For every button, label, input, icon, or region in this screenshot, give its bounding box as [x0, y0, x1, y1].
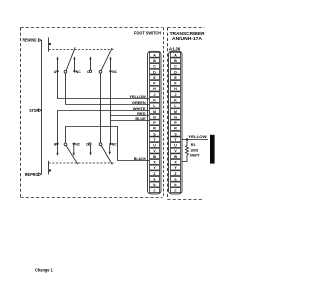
foot switch enclosure dashed border — [21, 28, 163, 198]
separator dashed line left — [163, 28, 165, 198]
svg-text:NC: NC — [112, 142, 117, 146]
svg-text:K: K — [174, 98, 177, 102]
svg-text:Z: Z — [174, 172, 177, 176]
pin T P1 — [150, 137, 160, 142]
svg-text:S: S — [174, 132, 177, 136]
wire S2 pole down to S4 pole — [100, 73, 102, 143]
pin N A1J6 — [171, 114, 181, 119]
wire YELLOW jumper from pin T to terminal board — [182, 139, 208, 141]
svg-text:b: b — [174, 183, 176, 187]
pin N P1 — [150, 114, 160, 119]
pin S P1 — [150, 131, 160, 136]
node STOP actuator arrow — [38, 109, 41, 112]
svg-text:K: K — [153, 98, 156, 102]
svg-text:D: D — [153, 70, 156, 74]
pin V P1 — [150, 148, 160, 153]
pin D P1 — [150, 69, 160, 74]
svg-text:X: X — [153, 161, 156, 165]
svg-text:FOOT SWITCH: FOOT SWITCH — [134, 31, 161, 36]
pin K A1J6 — [171, 97, 181, 102]
pin R A1J6 — [171, 126, 181, 131]
svg-text:P: P — [153, 121, 156, 125]
svg-text:BLUE: BLUE — [135, 117, 146, 121]
pin C P1 — [150, 64, 160, 69]
pin A P1 — [150, 52, 160, 57]
svg-text:R: R — [174, 127, 177, 131]
connector A1J6 outline transcriber side — [169, 51, 183, 194]
svg-text:NC: NC — [76, 70, 81, 74]
node linkage stud bottom — [49, 169, 51, 171]
wire RED from NC2 to pin N — [111, 115, 150, 117]
svg-text:J: J — [175, 93, 177, 97]
svg-text:180Ω: 180Ω — [190, 148, 198, 152]
svg-text:GREEN: GREEN — [132, 101, 146, 105]
switch S1 contact NC spring arrow and terminal — [74, 59, 76, 72]
svg-text:V: V — [153, 149, 156, 153]
svg-text:L: L — [174, 104, 177, 108]
pin F P1 — [150, 81, 160, 86]
pin E P1 — [150, 75, 160, 80]
svg-text:E: E — [153, 76, 156, 80]
wire linkage riser top — [48, 38, 50, 52]
svg-text:J: J — [154, 93, 156, 97]
svg-text:NC: NC — [75, 142, 80, 146]
svg-text:C: C — [174, 65, 177, 69]
pin J A1J6 — [171, 92, 181, 97]
svg-text:A1J6: A1J6 — [169, 46, 181, 51]
pin Y A1J6 — [171, 165, 181, 170]
pin C A1J6 — [171, 64, 181, 69]
svg-text:c: c — [175, 189, 177, 193]
switch S3 contact B terminal and spring arrow — [56, 143, 58, 145]
svg-text:W: W — [174, 155, 178, 159]
svg-text:R1: R1 — [191, 143, 196, 147]
svg-text:B: B — [153, 59, 156, 63]
pin J P1 — [150, 92, 160, 97]
pin Y P1 — [150, 165, 160, 170]
wire mechanical linkage 1 dashed — [49, 49, 114, 51]
svg-text:V: V — [174, 149, 177, 153]
svg-text:T: T — [174, 138, 177, 142]
pin B A1J6 — [171, 58, 181, 63]
pin F A1J6 — [171, 81, 181, 86]
pin W P1 — [150, 154, 160, 159]
connector P1 outline foot switch side — [148, 51, 162, 194]
svg-text:N: N — [174, 115, 177, 119]
pin E A1J6 — [171, 75, 181, 80]
svg-text:C: C — [153, 65, 156, 69]
wire mechanical linkage 2 dashed — [49, 162, 116, 164]
pin T A1J6 — [171, 137, 181, 142]
svg-text:U: U — [174, 144, 177, 148]
pin U P1 — [150, 143, 160, 148]
svg-text:M: M — [153, 110, 156, 114]
svg-text:U: U — [153, 144, 156, 148]
switch S4 contact D terminal and spring arrow — [89, 143, 91, 145]
svg-text:A: A — [174, 53, 177, 57]
svg-text:D: D — [174, 70, 177, 74]
svg-text:L: L — [153, 104, 156, 108]
svg-text:N: N — [153, 115, 156, 119]
pin b P1 — [150, 182, 160, 187]
svg-text:YELLOW: YELLOW — [129, 95, 146, 99]
wire WHITE from B riser to pin M — [58, 111, 150, 144]
pin M P1 — [150, 109, 160, 114]
svg-text:Y: Y — [174, 166, 177, 170]
wire S1 pole down — [65, 73, 67, 104]
pin Z P1 — [150, 171, 160, 176]
wire BLACK from S3 pole to pin X — [66, 127, 150, 161]
svg-text:M: M — [174, 110, 177, 114]
svg-text:REPRO: REPRO — [25, 172, 39, 177]
svg-text:REWIND: REWIND — [23, 38, 37, 43]
svg-text:T: T — [153, 138, 156, 142]
svg-text:H: H — [153, 87, 156, 91]
svg-text:AN/UNH-17A: AN/UNH-17A — [172, 36, 202, 41]
pin A A1J6 — [171, 52, 181, 57]
pin Z A1J6 — [171, 171, 181, 176]
node junction dot R1 top — [186, 138, 188, 140]
svg-text:F: F — [153, 82, 156, 86]
svg-text:1WATT: 1WATT — [190, 154, 201, 158]
svg-text:BLACK: BLACK — [134, 157, 147, 161]
pin c A1J6 — [171, 188, 181, 193]
pin X A1J6 — [171, 159, 181, 164]
switch S4 contact NC terminal and spring arrow — [109, 143, 111, 145]
switch S2 contact NC spring arrow and terminal — [110, 59, 112, 72]
wire NC2 down to NC4 — [110, 71, 112, 144]
svg-text:X: X — [174, 161, 177, 165]
pin b A1J6 — [171, 182, 181, 187]
pin H P1 — [150, 86, 160, 91]
svg-text:R: R — [153, 127, 156, 131]
svg-text:H: H — [174, 87, 177, 91]
pin W A1J6 — [171, 154, 181, 159]
svg-text:P: P — [174, 121, 177, 125]
switch S4 pole circle and blade — [99, 143, 102, 146]
svg-text:RED: RED — [137, 112, 146, 116]
pin D A1J6 — [171, 69, 181, 74]
node REWIND actuator arrow — [38, 39, 41, 42]
svg-text:A: A — [54, 70, 57, 74]
pin K P1 — [150, 97, 160, 102]
svg-text:b: b — [153, 183, 155, 187]
pin a A1J6 — [171, 176, 181, 181]
pin S A1J6 — [171, 131, 181, 136]
resistor R1 zigzag — [182, 140, 189, 162]
pin L A1J6 — [171, 103, 181, 108]
svg-text:S: S — [153, 132, 156, 136]
node linkage stud top — [49, 43, 51, 45]
node REPRO actuator arrow — [38, 173, 41, 176]
svg-text:STOP: STOP — [29, 108, 39, 113]
wire YELLOW from A to pin K — [58, 71, 150, 98]
switch S2 contact C spring arrow and terminal — [90, 59, 92, 71]
transcriber enclosure dashed border — [168, 28, 205, 200]
switch S2 pole circle and blade — [99, 70, 102, 73]
pin R P1 — [150, 126, 160, 131]
wire pedal common vertical — [41, 40, 43, 174]
svg-text:Z: Z — [153, 172, 156, 176]
terminal board bar — [210, 135, 215, 164]
svg-text:A: A — [153, 53, 156, 57]
svg-text:YELLOW: YELLOW — [188, 135, 207, 139]
switch S3 pole circle and blade — [64, 143, 67, 146]
pin B P1 — [150, 58, 160, 63]
switch S3 contact NC terminal and spring arrow — [73, 143, 75, 145]
svg-text:c: c — [154, 189, 156, 193]
switch S1 contact A spring arrow and terminal — [57, 59, 59, 72]
svg-text:WHITE: WHITE — [133, 107, 146, 111]
svg-text:a: a — [154, 177, 156, 181]
svg-text:a: a — [175, 177, 177, 181]
pin U A1J6 — [171, 143, 181, 148]
pin P A1J6 — [171, 120, 181, 125]
svg-text:F: F — [174, 82, 177, 86]
svg-text:W: W — [153, 155, 157, 159]
pin c P1 — [150, 188, 160, 193]
switch S1 pole circle and blade — [64, 70, 67, 73]
pin V A1J6 — [171, 148, 181, 153]
pin L P1 — [150, 103, 160, 108]
wire linkage riser bottom — [48, 161, 50, 175]
wire BLUE to pin P — [111, 120, 150, 122]
pin a P1 — [150, 176, 160, 181]
svg-text:B: B — [174, 59, 177, 63]
pin H A1J6 — [171, 86, 181, 91]
svg-text:Change 1: Change 1 — [35, 267, 53, 272]
svg-text:NC: NC — [112, 70, 117, 74]
pin P P1 — [150, 120, 160, 125]
svg-text:E: E — [174, 76, 177, 80]
pin X P1 — [150, 159, 160, 164]
pin M A1J6 — [171, 109, 181, 114]
svg-text:Y: Y — [153, 166, 156, 170]
wire GREEN from S1 pole to pin L — [66, 104, 150, 106]
